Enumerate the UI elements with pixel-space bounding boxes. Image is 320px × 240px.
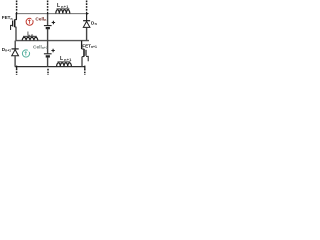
mid rail wire <box>16 40 90 42</box>
svg-text:Celln: Celln <box>35 16 46 22</box>
svg-text:Dn+1: Dn+1 <box>2 47 11 53</box>
node nub top left <box>16 12 18 15</box>
cell icon teal circle <box>22 50 29 57</box>
svg-text:Ln+1: Ln+1 <box>57 3 69 9</box>
inductor Ln (mid-left) <box>22 36 38 40</box>
svg-text:FETn: FETn <box>2 15 13 21</box>
node nub bottom right <box>84 66 86 69</box>
bottom rail wire <box>15 66 85 68</box>
svg-text:Celln+1: Celln+1 <box>33 44 48 50</box>
wire left column mid rail to diode <box>14 41 16 49</box>
node nub top middle <box>47 12 49 15</box>
dashed stub bottom left <box>16 69 18 75</box>
plus sign battery 2 <box>51 49 54 52</box>
dashed stub top middle <box>47 1 49 12</box>
dashed stub top left <box>16 1 18 12</box>
plus sign battery 1 <box>52 21 55 24</box>
svg-text:Ln+1: Ln+1 <box>60 56 72 62</box>
node nub top right <box>86 12 88 15</box>
dashed stub bottom right <box>84 69 86 75</box>
transistor FETn (top-left MOSFET) <box>11 14 17 30</box>
node nub bottom left <box>16 66 18 69</box>
dashed stub top right <box>86 1 88 12</box>
transistor FETn+1 (bottom-right MOSFET, mirrored) <box>82 41 89 62</box>
wire diode Dn to mid rail <box>86 28 88 41</box>
dashed stub bottom middle <box>47 69 49 75</box>
diode Dn+1 (bottom-left, pointing up) <box>12 49 19 56</box>
cell icon red circle <box>26 18 33 25</box>
wire FETn source to mid rail <box>15 27 17 41</box>
inductor Ln+1 (bottom-right) <box>57 62 72 67</box>
wire top rail to battery 1 <box>47 14 49 25</box>
top rail wire <box>15 13 88 15</box>
svg-text:FETn+1: FETn+1 <box>82 43 97 49</box>
wire battery 1 to mid rail and to battery 2 <box>47 29 49 54</box>
inductor Ln+1 (top-right) <box>56 9 70 14</box>
wire top rail corner to diode Dn <box>87 14 88 21</box>
wire diode to bottom rail <box>14 56 16 67</box>
diode Dn (top-right, pointing up) <box>83 21 90 28</box>
wire battery 2 to bottom rail <box>47 57 49 67</box>
svg-text:Dn: Dn <box>91 20 97 26</box>
wire FETn+1 source to bottom rail <box>81 57 83 67</box>
battery cell 1 <box>44 26 52 29</box>
battery cell 2 <box>44 54 52 57</box>
